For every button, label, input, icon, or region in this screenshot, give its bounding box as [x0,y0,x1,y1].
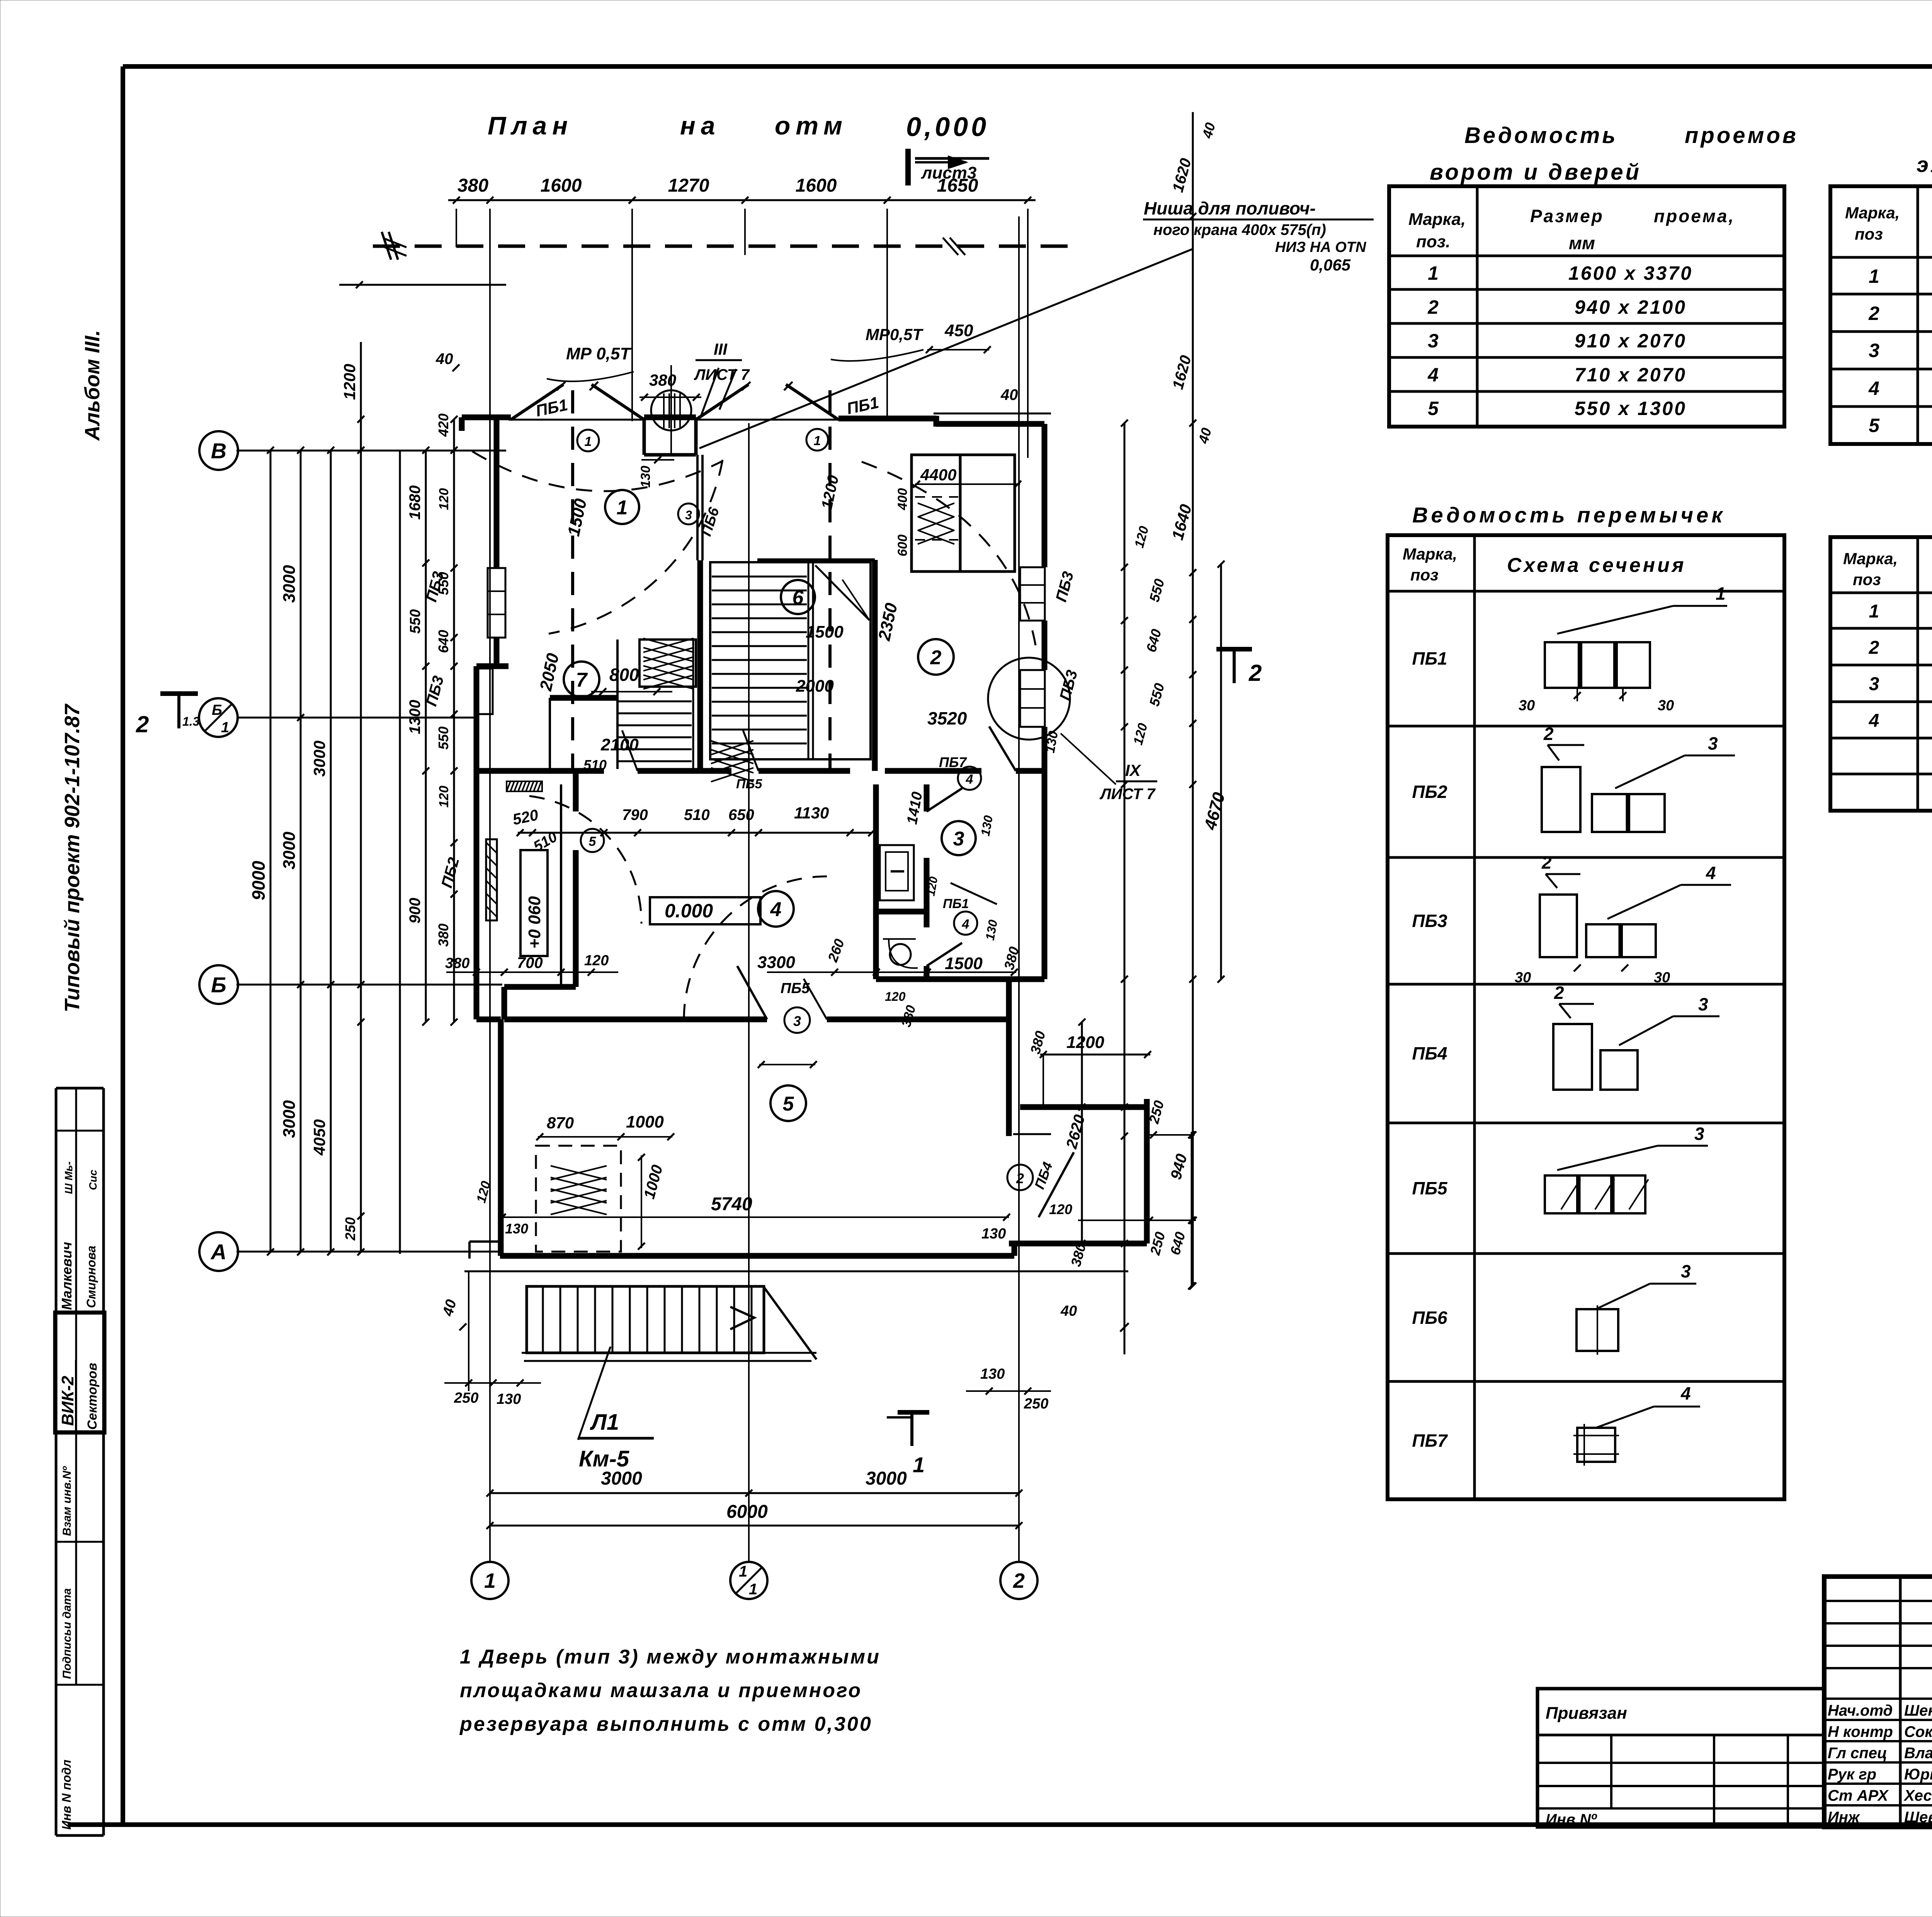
svg-text:5740: 5740 [711,1194,752,1214]
svg-text:Альбом III.: Альбом III. [81,330,104,441]
svg-text:Смирнова: Смирнова [84,1246,98,1308]
svg-text:1600 х 3370: 1600 х 3370 [1568,262,1693,284]
svg-text:1.3: 1.3 [182,714,200,728]
svg-text:1: 1 [585,434,592,449]
svg-text:900: 900 [406,898,423,924]
svg-text:120: 120 [584,953,609,969]
svg-text:В: В [211,439,226,463]
svg-text:640: 640 [435,630,451,653]
svg-text:4: 4 [1706,863,1716,883]
svg-text:550: 550 [407,609,423,634]
svg-text:ного крана 400х 575(п): ного крана 400х 575(п) [1153,221,1326,238]
svg-text:30: 30 [1515,970,1531,986]
svg-text:+0 060: +0 060 [525,896,544,949]
svg-text:4: 4 [770,898,782,921]
svg-text:ПБ1: ПБ1 [1412,648,1447,668]
svg-text:ПБ3: ПБ3 [1412,911,1447,931]
svg-text:ЛИСТ 7: ЛИСТ 7 [694,366,750,383]
svg-text:ПБ5: ПБ5 [781,980,810,997]
svg-text:Секторов: Секторов [85,1363,100,1430]
svg-text:поз: поз [1853,570,1881,589]
svg-text:Инв Nº: Инв Nº [1546,1811,1597,1828]
svg-text:2: 2 [1554,983,1564,1003]
svg-text:Км-5: Км-5 [579,1446,629,1471]
svg-text:870: 870 [547,1114,574,1132]
svg-text:250: 250 [454,1390,478,1406]
svg-text:1200: 1200 [1066,1033,1104,1052]
svg-text:1: 1 [1869,601,1879,622]
svg-text:проемов: проемов [1685,123,1798,148]
svg-text:380: 380 [445,955,469,971]
svg-text:А: А [210,1240,226,1264]
svg-text:250: 250 [1024,1396,1048,1412]
svg-text:3: 3 [685,508,692,522]
svg-text:4: 4 [1427,364,1439,386]
svg-text:3000: 3000 [601,1468,642,1489]
svg-text:1: 1 [1428,262,1439,284]
svg-text:1: 1 [1716,583,1726,604]
svg-text:Б: Б [212,702,222,718]
svg-text:1680: 1680 [406,485,423,520]
svg-text:1650: 1650 [937,175,978,196]
svg-text:ПБ7: ПБ7 [939,754,967,770]
svg-text:3000: 3000 [280,832,299,869]
svg-text:130: 130 [497,1391,521,1407]
svg-text:40: 40 [1060,1303,1077,1319]
svg-text:450: 450 [944,321,973,340]
svg-text:710 х 2070: 710 х 2070 [1575,364,1687,386]
svg-text:Марка,: Марка, [1403,545,1457,563]
svg-text:910 х 2070: 910 х 2070 [1575,330,1687,352]
svg-text:5: 5 [783,1093,794,1115]
svg-text:4: 4 [962,917,969,932]
svg-text:2000: 2000 [796,677,834,696]
svg-text:1600: 1600 [796,175,837,196]
svg-text:6: 6 [793,587,804,609]
svg-text:Гл спец: Гл спец [1828,1745,1887,1762]
svg-text:Б: Б [211,973,226,997]
svg-text:120: 120 [437,786,451,808]
svg-text:40: 40 [435,350,453,367]
svg-text:4: 4 [1680,1383,1691,1403]
svg-text:130: 130 [505,1221,528,1237]
svg-text:1: 1 [221,720,229,736]
svg-text:2: 2 [1869,638,1879,658]
svg-text:940 х 2100: 940 х 2100 [1575,296,1687,318]
svg-text:30: 30 [1654,970,1670,986]
svg-text:30: 30 [1658,697,1674,714]
svg-text:3000: 3000 [866,1468,907,1489]
svg-text:4050: 4050 [310,1119,328,1156]
svg-text:поз: поз [1410,566,1439,584]
svg-text:1: 1 [484,1569,496,1592]
svg-text:3300: 3300 [757,953,795,972]
svg-text:ПБ7: ПБ7 [1412,1431,1448,1451]
svg-text:МР0,5Т: МР0,5Т [866,325,923,344]
svg-text:1: 1 [617,497,628,519]
svg-text:4: 4 [1869,711,1879,731]
svg-text:3000: 3000 [280,565,299,603]
svg-text:120: 120 [437,488,451,510]
svg-text:проема,: проема, [1654,206,1735,226]
svg-text:1130: 1130 [794,804,829,822]
svg-text:ПБ6: ПБ6 [1412,1308,1447,1328]
svg-text:2: 2 [1543,724,1554,744]
svg-text:3: 3 [1869,340,1879,361]
svg-text:800: 800 [609,665,639,685]
svg-text:550 х 1300: 550 х 1300 [1575,398,1687,419]
svg-text:1: 1 [739,1563,747,1580]
svg-text:3000: 3000 [310,741,328,777]
svg-text:Инж: Инж [1828,1809,1861,1826]
svg-text:130: 130 [980,1366,1005,1382]
svg-text:Юрьева: Юрьева [1904,1766,1932,1783]
svg-text:3: 3 [1698,994,1708,1014]
svg-text:НИЗ НА ОТN: НИЗ НА ОТN [1275,239,1367,255]
svg-text:5: 5 [1428,398,1439,419]
svg-text:2: 2 [1541,852,1552,873]
svg-text:Малкевич: Малкевич [59,1242,75,1310]
svg-text:3: 3 [1694,1124,1704,1144]
svg-text:1: 1 [1869,265,1879,287]
svg-text:резервуара выполнить с отм 0,: резервуара выполнить с отм 0,300 [459,1713,872,1735]
svg-text:ПБ4: ПБ4 [1412,1043,1447,1063]
svg-text:Шенко: Шенко [1904,1702,1932,1719]
svg-text:поз: поз [1855,225,1883,243]
svg-text:2: 2 [930,646,942,669]
svg-text:Ш Мь-: Ш Мь- [63,1162,75,1194]
svg-text:2: 2 [1016,1170,1024,1186]
svg-text:550: 550 [435,572,451,595]
svg-text:3000: 3000 [280,1100,299,1138]
svg-text:3: 3 [1708,733,1718,754]
svg-text:2: 2 [1868,303,1879,324]
svg-text:Марка,: Марка, [1843,549,1898,568]
svg-text:9000: 9000 [248,861,269,900]
svg-text:510: 510 [684,806,710,823]
svg-text:Ведомость: Ведомость [1464,123,1618,148]
svg-text:Нач.отд: Нач.отд [1828,1702,1893,1719]
svg-text:ворот и дверей: ворот и дверей [1430,160,1641,185]
svg-text:Типовый проект 902-1-107.87: Типовый проект 902-1-107.87 [61,703,84,1012]
svg-text:2: 2 [1013,1569,1025,1592]
svg-text:ПБ2: ПБ2 [1412,782,1447,802]
svg-text:1 Дверь (тип 3) между монтаж: 1 Дверь (тип 3) между монтажными [460,1646,881,1668]
svg-text:3: 3 [1681,1261,1691,1281]
svg-text:IX: IX [1125,761,1142,779]
svg-text:III: III [714,340,728,358]
svg-text:1: 1 [913,1453,925,1477]
svg-text:1: 1 [749,1581,757,1598]
svg-text:МР 0,5Т: МР 0,5Т [566,344,631,363]
svg-text:Рук гр: Рук гр [1828,1766,1876,1783]
svg-text:3: 3 [793,1013,801,1029]
svg-text:0.000: 0.000 [665,900,713,922]
svg-text:1270: 1270 [668,175,709,196]
svg-text:6000: 6000 [726,1502,768,1522]
svg-text:3: 3 [1869,674,1879,694]
svg-text:Схема сечения: Схема сечения [1507,554,1686,577]
svg-text:700: 700 [517,954,543,971]
svg-text:1000: 1000 [626,1112,664,1131]
svg-text:Подписьи дата: Подписьи дата [61,1588,73,1679]
svg-text:650: 650 [728,806,754,823]
svg-text:элементов: элементов [1917,152,1932,177]
svg-text:отм: отм [775,111,848,140]
svg-text:510: 510 [583,757,607,773]
svg-text:600: 600 [895,534,910,556]
svg-text:ЛИСТ 7: ЛИСТ 7 [1099,786,1156,803]
svg-text:0,000: 0,000 [906,112,989,142]
svg-text:400: 400 [895,488,910,510]
svg-text:0,065: 0,065 [1310,256,1351,274]
svg-text:на: на [680,111,721,140]
svg-text:550: 550 [435,726,451,750]
svg-text:Л1: Л1 [590,1410,619,1435]
svg-text:420: 420 [435,413,451,437]
svg-text:Ведомость перемычек: Ведомость перемычек [1412,503,1726,527]
svg-text:30: 30 [1519,697,1535,714]
svg-text:1600: 1600 [541,175,582,196]
svg-text:130: 130 [981,1226,1006,1242]
svg-text:Сокольская: Сокольская [1904,1723,1932,1740]
svg-text:250: 250 [342,1217,358,1241]
svg-text:План: План [488,111,573,140]
svg-text:4: 4 [1868,378,1879,399]
svg-text:ПБ5: ПБ5 [1412,1178,1448,1198]
svg-text:40: 40 [1000,386,1018,403]
svg-text:2: 2 [1427,296,1439,318]
svg-text:5: 5 [589,834,597,849]
svg-text:380: 380 [649,371,676,389]
svg-text:Привязан: Привязан [1546,1704,1627,1723]
svg-text:130: 130 [638,466,653,488]
svg-text:ПБ1: ПБ1 [943,896,969,911]
svg-text:120: 120 [1049,1201,1072,1217]
svg-text:Ст АРХ: Ст АРХ [1828,1787,1889,1804]
svg-text:2100: 2100 [600,735,639,754]
svg-text:2: 2 [136,711,149,737]
svg-text:3: 3 [953,828,964,850]
svg-text:Власенко: Власенко [1904,1745,1932,1762]
svg-text:мм: мм [1569,233,1595,253]
svg-text:3520: 3520 [927,708,967,728]
svg-text:380: 380 [457,175,488,196]
svg-text:1: 1 [814,434,821,448]
svg-text:5: 5 [1869,415,1880,436]
svg-text:Н контр: Н контр [1828,1723,1893,1740]
svg-text:Взам инв.Nº: Взам инв.Nº [61,1466,73,1536]
svg-text:ВИК-2: ВИК-2 [58,1376,77,1426]
svg-text:3: 3 [1428,330,1439,352]
svg-text:1200: 1200 [340,364,359,400]
svg-text:4400: 4400 [920,466,956,484]
svg-text:1500: 1500 [806,623,844,641]
svg-text:поз.: поз. [1416,232,1450,251]
svg-text:1500: 1500 [945,954,983,973]
svg-text:Марка,: Марка, [1408,210,1466,229]
svg-text:4: 4 [966,772,973,787]
svg-text:Ниша для поливоч-: Ниша для поливоч- [1144,198,1316,218]
svg-text:Размер: Размер [1530,206,1604,226]
svg-text:2: 2 [1248,660,1262,686]
svg-text:Хесина: Хесина [1903,1787,1932,1804]
svg-text:120: 120 [885,990,906,1004]
svg-text:Шевлякова: Шевлякова [1904,1809,1932,1826]
svg-text:Инв N подл: Инв N подл [60,1760,73,1830]
svg-text:площадками машзала и прием: площадками машзала и приемного [460,1679,862,1702]
svg-text:Марка,: Марка, [1845,204,1900,222]
svg-text:380: 380 [435,924,451,947]
svg-text:7: 7 [576,669,588,691]
svg-text:790: 790 [622,806,648,823]
svg-text:Сис: Сис [87,1170,99,1190]
